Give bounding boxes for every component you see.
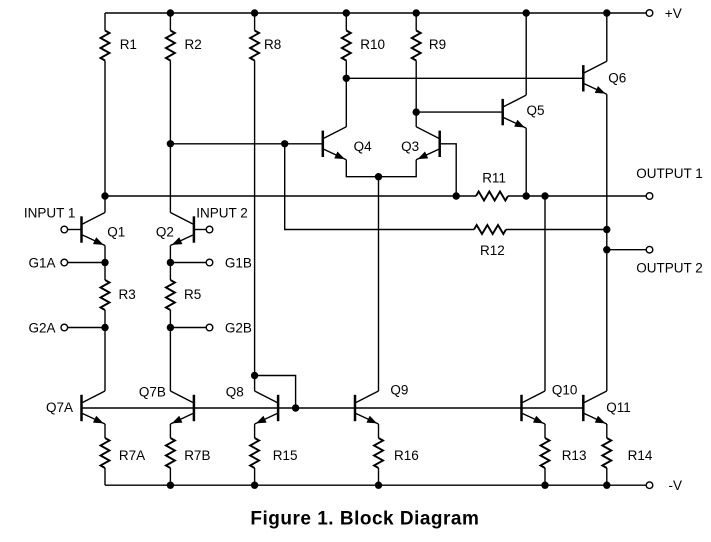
svg-text:Q7A: Q7A	[46, 400, 73, 415]
svg-text:R14: R14	[628, 448, 653, 463]
svg-text:Q10: Q10	[552, 383, 578, 398]
svg-text:OUTPUT 2: OUTPUT 2	[636, 261, 703, 276]
svg-text:R10: R10	[360, 37, 385, 52]
svg-text:R5: R5	[184, 287, 201, 302]
svg-text:R8: R8	[264, 37, 281, 52]
svg-text:Figure 1. Block Diagram: Figure 1. Block Diagram	[250, 509, 479, 530]
svg-text:R15: R15	[273, 448, 298, 463]
svg-text:Q2: Q2	[156, 225, 174, 240]
svg-text:Q11: Q11	[606, 400, 631, 415]
svg-text:+V: +V	[665, 6, 682, 21]
svg-text:Q5: Q5	[527, 103, 545, 118]
svg-text:Q3: Q3	[401, 139, 419, 154]
svg-text:R7B: R7B	[184, 448, 210, 463]
svg-text:R16: R16	[394, 448, 419, 463]
svg-text:R3: R3	[119, 287, 136, 302]
svg-text:-V: -V	[669, 478, 683, 493]
svg-text:G2A: G2A	[29, 320, 56, 335]
svg-text:R12: R12	[480, 243, 505, 258]
svg-text:Q9: Q9	[390, 383, 408, 398]
svg-text:INPUT 2: INPUT 2	[196, 206, 248, 221]
svg-text:G2B: G2B	[225, 320, 252, 335]
svg-text:R2: R2	[185, 37, 202, 52]
svg-text:G1A: G1A	[29, 255, 56, 270]
svg-text:Q7B: Q7B	[139, 385, 166, 400]
svg-text:R9: R9	[429, 37, 446, 52]
svg-text:R1: R1	[120, 37, 137, 52]
svg-text:Q4: Q4	[354, 139, 373, 154]
svg-text:R7A: R7A	[119, 448, 145, 463]
svg-text:R11: R11	[482, 170, 506, 185]
svg-text:Q8: Q8	[226, 385, 244, 400]
svg-text:Q6: Q6	[608, 71, 626, 86]
svg-text:Q1: Q1	[107, 225, 125, 240]
svg-text:INPUT 1: INPUT 1	[24, 205, 76, 220]
svg-text:G1B: G1B	[225, 255, 252, 270]
svg-text:OUTPUT 1: OUTPUT 1	[636, 166, 703, 181]
svg-text:R13: R13	[562, 448, 587, 463]
